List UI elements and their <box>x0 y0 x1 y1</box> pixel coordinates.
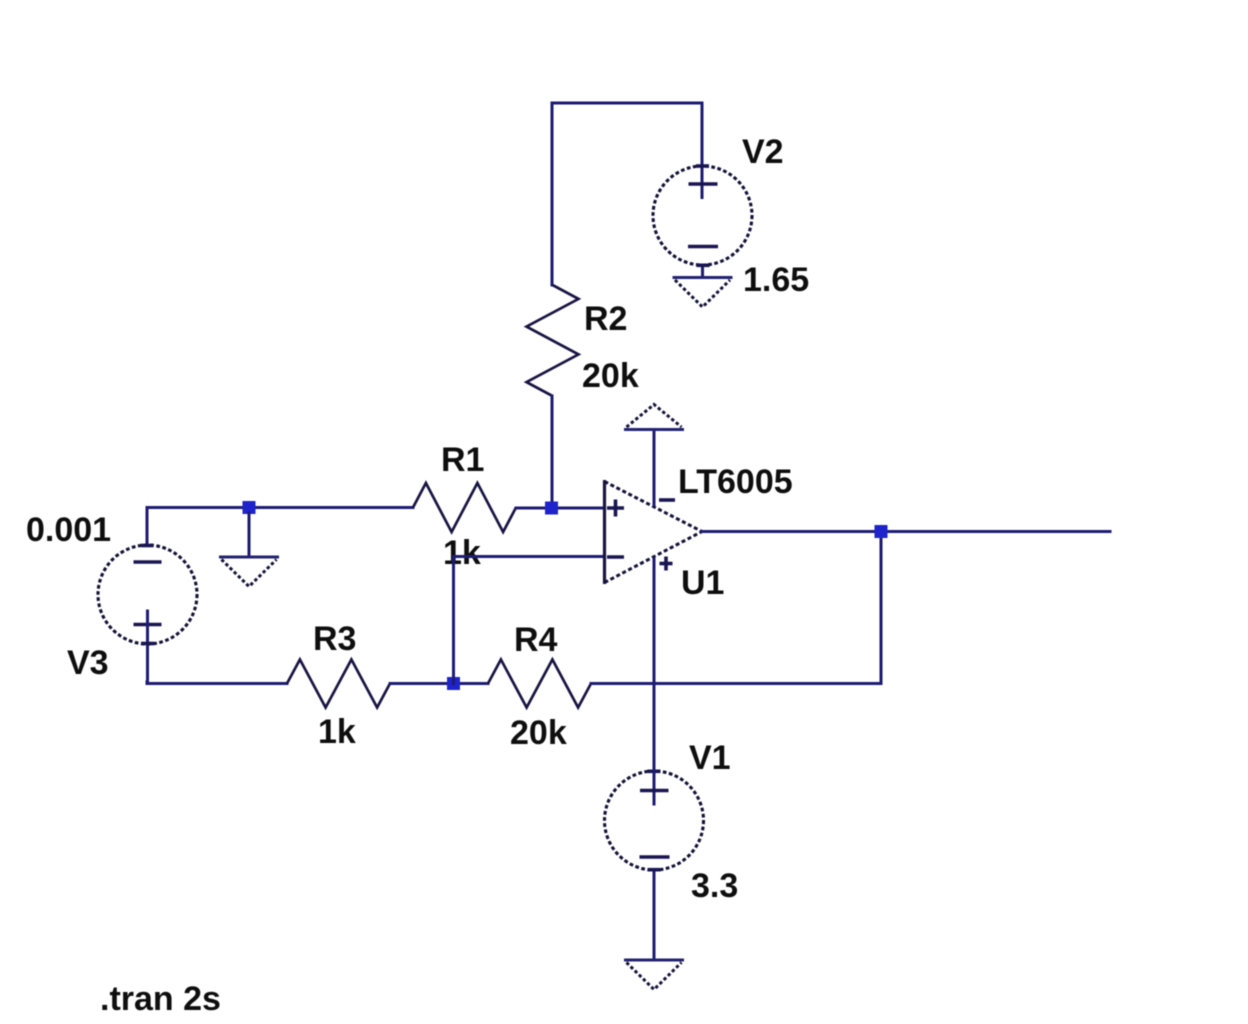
svg-text:1.65: 1.65 <box>743 261 809 299</box>
svg-text:R1: R1 <box>441 441 484 479</box>
svg-text:V2: V2 <box>742 133 784 171</box>
svg-text:20k: 20k <box>510 714 567 752</box>
wire left input row <box>147 506 413 509</box>
svg-text:.tran 2s: .tran 2s <box>100 980 221 1018</box>
wire top loop left vertical to R2 <box>551 103 554 285</box>
svg-text:U1: U1 <box>681 564 724 602</box>
ground (op-amp top, pointing up) <box>624 405 684 430</box>
wire op-amp V- power pin <box>653 430 656 505</box>
wire R1 to op-amp +in <box>516 507 604 510</box>
wire R4 to feedback corner <box>591 682 881 685</box>
svg-text:0.001: 0.001 <box>26 511 111 549</box>
node junction (R3 / R4 / -in) <box>447 677 460 690</box>
svg-text:V1: V1 <box>689 739 731 777</box>
node junction (+in / R2) <box>545 502 558 515</box>
resistor R1 <box>413 483 516 532</box>
voltage source V1 <box>605 771 704 960</box>
wire top loop horizontal <box>552 102 702 105</box>
svg-text:20k: 20k <box>582 357 639 395</box>
svg-text:1k: 1k <box>443 534 481 572</box>
wire -in vertical <box>452 557 455 684</box>
node junction (output / feedback) <box>875 525 888 538</box>
resistor R2 <box>527 285 579 396</box>
wire op-amp V+ power pin to V1 <box>653 560 656 772</box>
wire ground stub <box>248 513 251 557</box>
wire output <box>702 530 1110 533</box>
wire V2 top pin <box>701 103 704 166</box>
wire V3 bottom row to R3 <box>147 682 287 684</box>
resistor R3 <box>287 660 390 708</box>
voltage source V2 <box>653 103 752 278</box>
svg-text:R2: R2 <box>584 300 627 338</box>
svg-text:3.3: 3.3 <box>691 867 738 905</box>
voltage source V3 <box>98 508 197 683</box>
wire R2 bottom to node <box>551 396 554 508</box>
svg-text:R4: R4 <box>514 621 558 659</box>
wire feedback vertical <box>880 532 883 684</box>
svg-text:R3: R3 <box>313 620 356 658</box>
svg-text:LT6005: LT6005 <box>678 463 793 501</box>
node junction (ground / V3- / R1 left) <box>243 501 256 514</box>
resistor R4 <box>488 660 591 708</box>
svg-text:1k: 1k <box>318 713 356 751</box>
wire R3 to node <box>390 682 488 685</box>
svg-text:V3: V3 <box>67 644 109 682</box>
op-amp U1 <box>605 480 703 584</box>
ground (below V1) <box>624 960 684 990</box>
wire -in horizontal to op-amp <box>454 555 605 558</box>
ground (near V3 top node) <box>219 557 279 587</box>
ground (below V2) <box>673 278 733 308</box>
